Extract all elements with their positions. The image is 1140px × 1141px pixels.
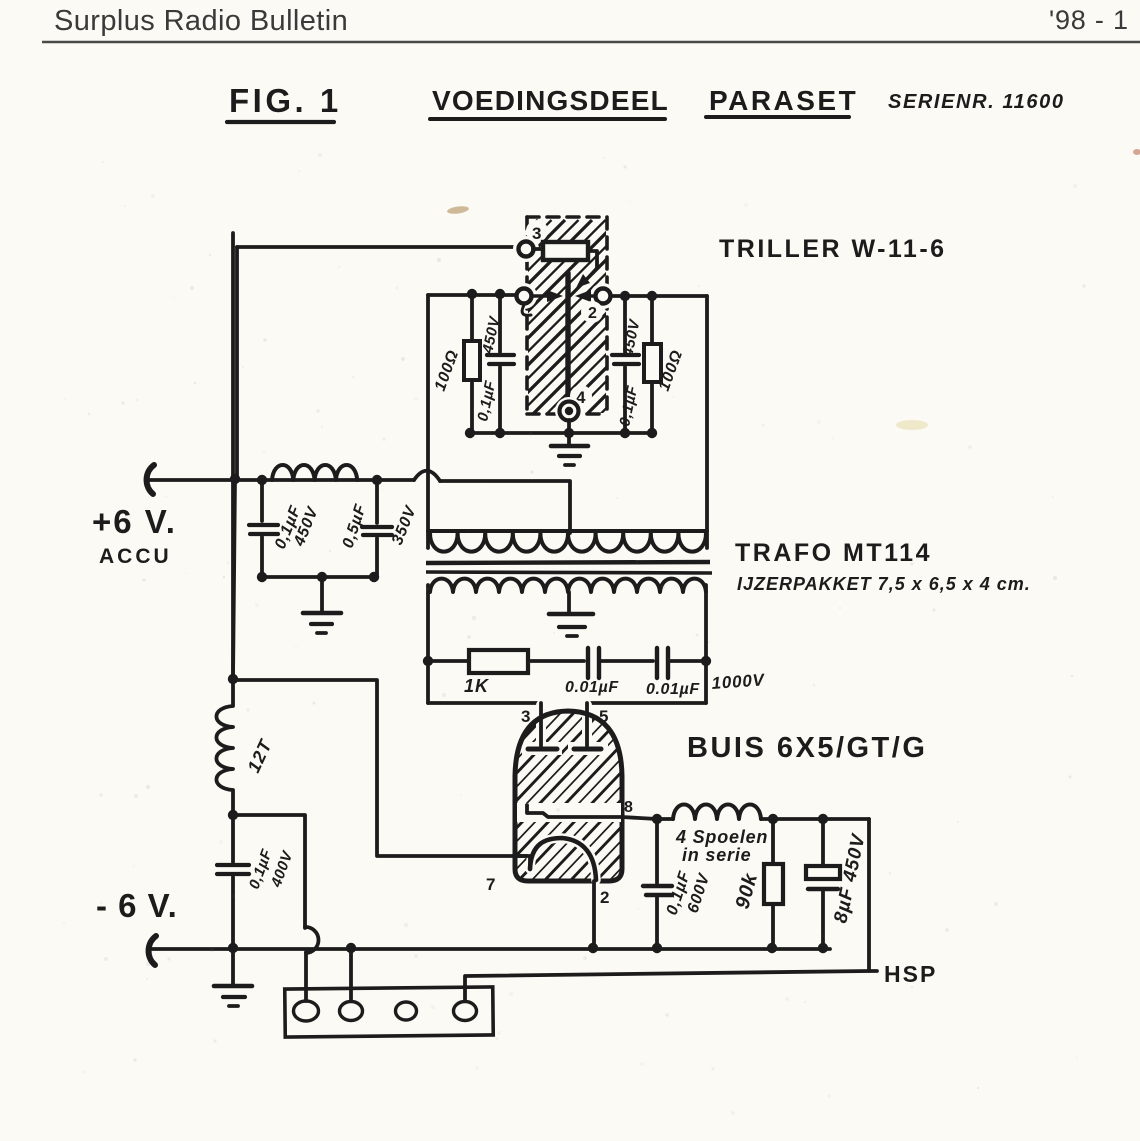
svg-text:SERIENR. 11600: SERIENR. 11600 [888,91,1065,113]
junction dots left column [228,674,238,820]
svg-text:'98 - 1: '98 - 1 [1049,5,1129,35]
svg-text:FIG. 1: FIG. 1 [229,82,342,119]
white halo pin 2 [590,283,616,309]
svg-text:0,1µF: 0,1µF [616,384,641,428]
connector strip body [285,987,493,1037]
wire pin 2 to right rail [611,294,707,298]
transformer core laminations [426,562,712,573]
capacitor 0.01uF (left) [588,648,653,678]
transformer primary top line [428,529,707,533]
snubber bottom rail [470,431,652,435]
triller pin 3 terminal circle [519,242,534,257]
capacitor 0.1uF 400V (bias) [217,815,249,948]
white halo label 2 [581,301,603,323]
wire pin 4 to snubber bottom rail [567,420,571,433]
strip hole 1 [294,1001,319,1021]
wire cathode node to output coil [657,817,673,821]
anode rail right (to pin 5) [587,701,706,705]
wire pin3 circle to coil box [533,247,543,251]
junction dots output filter [768,814,828,824]
header rule [42,41,1140,44]
svg-text:2: 2 [588,305,598,322]
transformer primary winding [430,533,706,552]
capacitor 0.1uF 450V (triller right) [612,296,639,433]
label 0.1uF 450V right [616,317,644,428]
svg-text:450V: 450V [619,317,644,359]
svg-text:TRILLER W-11-6: TRILLER W-11-6 [719,235,947,263]
triller top rail right segment [705,296,709,548]
capacitor 0.5uF 350V [362,482,392,577]
wire pin 7 inside envelope [513,856,530,866]
tube envelope outline [515,711,622,881]
triller reed (vibrating arm) [565,273,570,403]
wire from coil box to contact arm [588,251,597,268]
svg-text:TRAFO MT114: TRAFO MT114 [735,539,932,567]
inductor 12T [216,233,233,815]
-6V terminal hook [149,936,156,965]
inductor 4 spoelen in serie [673,805,761,819]
contact spring tick below pin 1 [522,305,531,315]
tube hatched envelope fill [292,700,911,900]
secondary right lead down [704,585,708,703]
secondary left lead down [426,585,430,703]
label 0.1uF 450V left [474,314,504,423]
wire into hole 1 [304,952,308,1001]
svg-text:Surplus Radio Bulletin: Surplus Radio Bulletin [54,5,348,37]
filter choke on +6V lead [272,465,357,480]
junction dots +6V rail [230,474,382,582]
contact arrow from pin 1 (points right to reed) [532,290,563,302]
svg-text:8: 8 [624,799,634,816]
svg-text:100Ω: 100Ω [432,348,462,394]
-6V supply wire / common bus [152,947,830,951]
wire 12T node to connector strip hole 1 [233,815,305,928]
wire hop over -6V rail to hole 1 [305,927,318,953]
wire hole 4 up to HSP line [463,976,467,1001]
+6V supply wire [150,478,414,482]
tube pin 3 anode lead [539,703,543,746]
triller top rail left segment [426,295,430,548]
wire -6V bus to hole 2 [349,950,353,1001]
label 0.1uF 600V [664,869,714,918]
svg-text:ACCU: ACCU [99,545,172,568]
white halo pin 4 [555,397,583,425]
strip hole 3 [396,1002,417,1020]
svg-text:+6 V.: +6 V. [92,503,177,540]
svg-text:VOEDINGSDEEL: VOEDINGSDEEL [432,85,669,116]
tube pin 2 lead to -6V bus [592,881,596,948]
underline under FIG. 1 [227,120,334,124]
svg-text:- 6 V.: - 6 V. [96,887,178,924]
svg-text:12T: 12T [243,735,276,775]
tube anode plate (pin 3) [528,747,557,752]
HSP output rail down [867,819,871,971]
wire from node A to triller pin 3 [237,245,518,249]
junction dot cathode node [652,814,662,824]
white halo label 4 [570,385,592,407]
triller pin 4 terminal circle [560,402,579,421]
svg-text:IJZERPAKKET 7,5 x 6,5 x 4 cm.: IJZERPAKKET 7,5 x 6,5 x 4 cm. [737,574,1031,594]
ground below pin 4 [551,433,588,465]
white halo plate stubs [522,705,608,755]
junction dots on -6V bus [228,943,828,953]
triller driver coil box [543,242,588,260]
svg-text:7: 7 [486,875,497,894]
svg-text:BUIS 6X5/GT/G: BUIS 6X5/GT/G [687,732,927,764]
capacitor 0.1uF 450V (accu filter) [249,482,278,577]
anode rail left (to pin 3) [428,701,541,705]
wire coil to HSP corner [761,817,869,821]
white halo heater arc [530,838,596,880]
white halo label 3 [526,220,548,242]
svg-text:0.01µF: 0.01µF [565,679,619,696]
secondary centre tap ground [549,592,593,636]
resistor 1K [428,650,584,673]
resistor 100 ohm (left) [464,294,480,433]
svg-text:4 Spoelen: 4 Spoelen [675,827,768,847]
strip hole 4 [454,1002,477,1021]
left rail down from +6V [233,479,235,679]
strip hole 2 [340,1002,363,1021]
wire rail to pin 1 [428,293,516,297]
underline under VOEDINGSDEEL [430,117,665,121]
tube anode plate (pin 5) [574,747,601,752]
svg-text:PARASET: PARASET [709,85,858,116]
svg-text:in serie: in serie [682,845,751,865]
capacitor 8uF 450V electrolytic [806,819,840,948]
svg-text:0.01µF: 0.01µF [646,681,700,698]
ground at -6V junction [214,950,252,1006]
tube pin 5 anode lead [585,703,589,746]
wire hop over primary-left lead [414,471,440,481]
wire to tube heater pin 7 [233,680,529,856]
svg-text:90k: 90k [732,870,763,911]
white halo pin 1 [511,283,537,309]
white band behind cathode line [517,803,621,822]
accu filter ground rail [262,575,375,579]
triller pin 2 terminal circle [596,289,611,304]
tube heater arc [530,838,596,880]
triller pin 1 terminal circle [517,289,532,304]
label 0.1uF 400V [246,847,297,892]
resistor 100 ohm (right) [644,296,661,433]
junction dots triller rails [465,289,657,438]
white halo pin 3 [513,236,539,262]
contact arrow toward reed from pin 2 (points left) [575,290,601,302]
svg-text:350V: 350V [389,503,420,547]
capacitor 0.01uF (right) [657,648,706,678]
svg-text:0,1µF: 0,1µF [474,379,499,423]
junction dots snubber [423,656,711,666]
+6V terminal hook [147,465,154,494]
capacitor 0.1uF 450V (triller left) [487,294,514,433]
ground below accu filter [303,577,341,633]
contact arrow from coil (points to reed top) [576,268,597,288]
tube cathode line to pin 8 [527,805,657,819]
svg-text:1K: 1K [464,676,490,696]
svg-text:2: 2 [600,888,611,907]
triller hatched body fill [338,220,930,420]
capacitor 0.1uF 600V (output) [643,819,672,948]
svg-text:HSP: HSP [884,961,937,987]
resistor 90k bleeder [764,819,783,948]
underline under PARASET [706,115,849,119]
HSP output line from hole 4 [466,971,877,976]
transformer secondary winding [430,579,706,592]
triller dashed enclosure box [527,217,607,414]
wire left vertical from node A down to +6V rail [235,247,239,479]
svg-text:1000V: 1000V [711,670,766,693]
wire +6V to transformer centre tap [440,481,570,533]
